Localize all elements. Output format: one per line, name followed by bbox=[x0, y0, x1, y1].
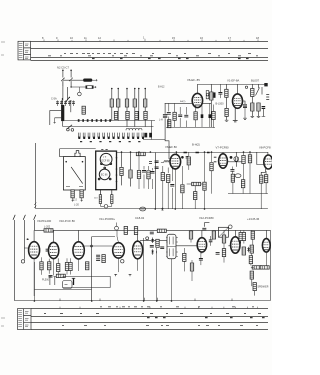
resistor R46 horizontal bbox=[157, 229, 166, 232]
trimmer circle S bbox=[78, 92, 82, 96]
micro labels between line 2 and 3 bbox=[48, 54, 258, 56]
coupling cap between bbox=[46, 249, 48, 251]
plug key on box top bbox=[75, 151, 80, 157]
wire V9 top bbox=[33, 230, 35, 241]
right rail of V11b bbox=[143, 238, 145, 301]
svg-text:8: 8 bbox=[42, 36, 44, 40]
capacitor C8 bbox=[178, 115, 182, 117]
antenna lead 1 bbox=[62, 71, 64, 78]
resistor R13 bbox=[173, 112, 176, 120]
resistor bbox=[249, 256, 252, 264]
capacitor C27 bbox=[216, 253, 220, 255]
wire bbox=[197, 84, 199, 94]
tube V10b bbox=[73, 242, 84, 259]
svg-text:EC 86: EC 86 bbox=[101, 174, 108, 177]
svg-text:11: 11 bbox=[84, 36, 87, 40]
wire top bus left bbox=[60, 148, 96, 150]
svg-text:N2 C5-C7: N2 C5-C7 bbox=[57, 66, 69, 70]
junction bbox=[150, 151, 152, 153]
tube V3b bbox=[98, 167, 111, 180]
svg-text:113: 113 bbox=[94, 198, 98, 200]
resistor R32 bbox=[242, 156, 245, 164]
anode wire right bbox=[202, 102, 212, 104]
wire V10a top bbox=[53, 230, 55, 242]
resistor R51 left of V13 bbox=[222, 235, 225, 243]
ground stub bbox=[243, 118, 247, 119]
top bus bbox=[35, 220, 271, 230]
tube V11a bbox=[113, 243, 125, 258]
legend table top-left bbox=[18, 41, 31, 60]
comb contact row 1 bbox=[64, 120, 155, 122]
wire bbox=[252, 84, 258, 116]
wire top bus right bbox=[117, 152, 268, 154]
coupling wire bbox=[84, 245, 112, 247]
wire bbox=[92, 236, 116, 238]
resistor R58 bbox=[187, 157, 190, 165]
tube V14 PL36 bbox=[262, 239, 270, 252]
capacitor C24 bbox=[160, 247, 164, 249]
circle top right of V11b bbox=[146, 237, 149, 240]
wires lower right bbox=[252, 230, 271, 300]
junction dots on mid bus bbox=[121, 151, 251, 153]
svg-text:V12-PCF80: V12-PCF80 bbox=[199, 216, 214, 220]
wire V8 bottom bbox=[261, 169, 265, 176]
resistor R34 bbox=[231, 174, 234, 182]
fuse oval on bus bbox=[140, 207, 146, 211]
left rail B bbox=[24, 220, 26, 260]
wire bbox=[63, 79, 83, 81]
tuning gang box bbox=[63, 157, 85, 190]
trimmer box bbox=[206, 91, 209, 99]
micro marks below line 3 bbox=[62, 324, 258, 326]
svg-text:10: 10 bbox=[70, 36, 73, 40]
switch arm diagonal bbox=[65, 98, 69, 103]
capacitor C18 bbox=[155, 167, 159, 169]
ticks on line 1 bbox=[60, 307, 258, 309]
tick marks above bottom bus bbox=[60, 298, 232, 301]
jack circle below V11a bbox=[121, 260, 124, 263]
resistor R44 vertical bbox=[124, 226, 127, 234]
dial scale line 1 bbox=[31, 41, 268, 43]
svg-text:V10-P.CF 80: V10-P.CF 80 bbox=[59, 219, 75, 223]
ground bus bbox=[166, 127, 215, 129]
resistor R40 on bus bbox=[44, 229, 53, 232]
grid wire left bbox=[165, 102, 193, 104]
wire bbox=[92, 79, 97, 81]
svg-text:V6-EF 80: V6-EF 80 bbox=[165, 145, 177, 149]
resistor R59 bbox=[189, 231, 192, 239]
resistor R23 on bus bbox=[136, 152, 145, 155]
bottom bus mid row bbox=[36, 208, 268, 210]
wire bbox=[204, 223, 209, 227]
wire bbox=[137, 235, 139, 242]
svg-text:L-H: L-H bbox=[159, 120, 163, 122]
marks above shield box bbox=[101, 149, 108, 151]
tube V1 EF80 bbox=[233, 94, 243, 108]
resistor R49 bbox=[190, 263, 193, 271]
svg-text:L-202: L-202 bbox=[44, 226, 51, 229]
resistor bank R4-R8 bbox=[110, 99, 113, 107]
arrow bbox=[54, 118, 56, 124]
junction dots bottom bus bbox=[34, 300, 173, 302]
dial scale line 4 bbox=[31, 60, 268, 62]
resistor R52 left of V13 bbox=[222, 249, 225, 257]
capacitor C12 (dark) bbox=[213, 92, 215, 97]
resistor bank R9-R12 bbox=[114, 111, 117, 119]
terminal strip bbox=[252, 266, 261, 269]
tube V13 bbox=[231, 237, 240, 253]
diode D3 (dark) bbox=[247, 248, 250, 250]
capacitor C20 bbox=[230, 170, 234, 172]
capacitor C21 double bbox=[96, 255, 100, 257]
tick marks above scale line 1 bbox=[44, 39, 258, 42]
wire V6 bottom bbox=[168, 166, 182, 209]
resistor R43 bbox=[102, 255, 105, 263]
wire V12 top bbox=[201, 230, 203, 237]
left rail 2 bbox=[155, 153, 157, 209]
resistor R50 top bbox=[212, 231, 215, 239]
resistor R26 bbox=[167, 175, 170, 183]
value oval B2 bbox=[235, 174, 241, 178]
circle on top wire bbox=[229, 225, 233, 229]
svg-text:C18-02: C18-02 bbox=[135, 216, 145, 220]
wire bbox=[70, 101, 72, 112]
grid marks left of V7 bbox=[214, 157, 217, 162]
wire stubs with T tops bbox=[49, 277, 57, 286]
jack circle bbox=[104, 205, 108, 209]
trimmer bank wires bbox=[112, 89, 145, 127]
tube V11b bbox=[133, 241, 143, 259]
junction dots on bus bbox=[155, 208, 157, 210]
svg-text:V6-EF- 85: V6-EF- 85 bbox=[187, 78, 200, 82]
capacitor bank C1-C5 bbox=[56, 100, 75, 106]
capacitor C10 (dark) bbox=[201, 114, 204, 118]
coil L2 loops bbox=[126, 128, 142, 130]
asterisk junction bbox=[161, 208, 163, 211]
tube V9 bbox=[29, 242, 40, 259]
resistor R22 bbox=[129, 170, 132, 178]
small component marks on line 4 bbox=[92, 57, 249, 59]
phono box bbox=[219, 227, 229, 237]
T studs bbox=[114, 274, 131, 276]
junction dot bbox=[61, 101, 63, 103]
wire T3 to V12 bbox=[176, 245, 197, 247]
bottom comb wire bbox=[143, 139, 165, 141]
resistor R2 bbox=[86, 86, 93, 89]
dark caps end of comb bbox=[144, 133, 152, 138]
component marks on line 2 bbox=[147, 317, 265, 319]
trimmer T2 bbox=[80, 190, 83, 202]
component under coil bbox=[161, 173, 164, 181]
zipper contact units bbox=[78, 133, 144, 138]
capacitor C7 bbox=[167, 113, 171, 115]
cap pair right of V12 bbox=[209, 240, 213, 242]
dial scale line 3 bbox=[31, 57, 268, 59]
wire comb end bbox=[151, 121, 153, 140]
resistor bbox=[250, 245, 253, 253]
wire V6 top bbox=[175, 152, 177, 154]
wire to tuning box bbox=[60, 149, 64, 157]
resistor R17 bbox=[225, 89, 228, 97]
svg-text:C-2: C-2 bbox=[73, 199, 78, 202]
capacitor C15 bbox=[142, 171, 146, 173]
svg-text:1: 1 bbox=[143, 35, 145, 39]
junction bbox=[70, 86, 71, 87]
resistor R18 bbox=[225, 108, 228, 116]
indicator tube circle bbox=[234, 152, 239, 167]
wire V9 bottom bbox=[33, 259, 35, 297]
resistor R41 horizontal bbox=[56, 274, 65, 277]
mid vertical rail bbox=[91, 237, 93, 301]
switch contact 2 bbox=[69, 78, 72, 87]
wire risers under tube bbox=[169, 103, 210, 127]
capacitor C23 bbox=[150, 232, 154, 234]
wire bbox=[140, 240, 167, 242]
contact marks bbox=[149, 162, 152, 164]
svg-text:V8-PCF8: V8-PCF8 bbox=[259, 145, 271, 149]
svg-text:16: 16 bbox=[200, 36, 203, 40]
wire V13 grid bbox=[228, 245, 230, 247]
resistor R20 bbox=[251, 103, 254, 111]
switch contact 1 bbox=[61, 78, 64, 87]
cap dots on row 1 bbox=[78, 119, 111, 122]
scale line 3 bbox=[31, 322, 268, 324]
input connector slashes bbox=[13, 215, 36, 220]
resistor R25 bbox=[147, 171, 150, 179]
tube V3a bbox=[100, 153, 112, 165]
svg-text:+13-PL36: +13-PL36 bbox=[247, 217, 260, 221]
svg-text:V7-PCF80: V7-PCF80 bbox=[216, 145, 230, 149]
svg-text:17: 17 bbox=[228, 36, 231, 40]
ground bus right bbox=[228, 193, 268, 195]
svg-text:B-H(2): B-H(2) bbox=[192, 142, 200, 146]
IF transformer T3 bbox=[166, 234, 178, 258]
wire V10b top bbox=[78, 230, 80, 241]
tube V12 bbox=[197, 238, 206, 252]
svg-text:V11-PCF80+: V11-PCF80+ bbox=[99, 217, 115, 221]
ferrite coil L1 (solid bar) bbox=[61, 105, 64, 121]
svg-text:15: 15 bbox=[172, 36, 175, 40]
small trimmer circle bbox=[245, 86, 247, 88]
svg-text:ECF 80: ECF 80 bbox=[102, 159, 111, 162]
junction dots bbox=[204, 151, 206, 153]
electrolytic cap (dark T) bbox=[73, 279, 75, 286]
resistor R21 bbox=[120, 167, 123, 175]
legend table bottom-left bbox=[18, 309, 32, 330]
resistor R53 bbox=[239, 233, 242, 241]
svg-text:V1-EF-8A: V1-EF-8A bbox=[227, 79, 239, 83]
svg-text:SPEAKER: SPEAKER bbox=[258, 285, 269, 288]
diode D1 (dark) bbox=[151, 239, 154, 241]
svg-text:PL500: PL500 bbox=[42, 279, 50, 282]
coil winding 1 bbox=[99, 195, 101, 204]
anode wire V7 bbox=[227, 161, 242, 163]
capacitor C9 bbox=[184, 115, 188, 117]
resistor R36 bbox=[260, 175, 263, 183]
wire V7 top bbox=[222, 152, 224, 154]
capacitor C14b (dark) bbox=[262, 107, 266, 109]
bracket wire bbox=[50, 111, 61, 125]
resistor R57 bbox=[253, 283, 256, 291]
resistors under V9/V10 bbox=[40, 262, 43, 270]
svg-text:12: 12 bbox=[98, 36, 101, 40]
resistor R45 bbox=[134, 227, 137, 235]
wire bbox=[61, 98, 63, 105]
resistor R54 bbox=[242, 233, 245, 241]
scale line 4 bbox=[31, 329, 268, 331]
capacitor C20 bbox=[49, 275, 53, 277]
resistor R55 bbox=[168, 120, 171, 128]
micro marks between line 1-2 bbox=[44, 313, 261, 315]
micro marks above line 1 bbox=[100, 306, 254, 308]
capacitor C25 bbox=[199, 259, 203, 261]
resistor R24 bbox=[137, 171, 140, 179]
cathode ground V1 bbox=[233, 108, 238, 122]
grid feed wire bbox=[24, 239, 29, 248]
resistor R3 bbox=[82, 106, 85, 114]
resistor R55 bbox=[242, 247, 245, 255]
resistor R27 bbox=[181, 185, 184, 193]
capacitor C13 bbox=[218, 93, 222, 95]
wire tube V1 top bbox=[236, 84, 238, 94]
resistor R35 bbox=[241, 180, 244, 188]
scan left-edge specks bbox=[1, 42, 5, 326]
switch arm on row 2 bbox=[67, 125, 73, 129]
resistor R16 bbox=[210, 92, 213, 100]
resistor R37 bbox=[264, 175, 267, 183]
wire V8 top bbox=[267, 152, 269, 155]
dial scale line 2 bbox=[31, 48, 268, 50]
left rail A bbox=[14, 220, 16, 296]
IF transformer below box bbox=[99, 190, 113, 207]
wire bbox=[63, 87, 68, 101]
wire tube V1 anode bbox=[242, 101, 245, 104]
wire V14 bottom bbox=[265, 252, 267, 266]
wire V12 bottom bbox=[201, 252, 203, 254]
bottom bus bbox=[15, 296, 271, 301]
tube V10a bbox=[48, 242, 58, 258]
cable loop wire bbox=[63, 276, 111, 287]
svg-text:BL007: BL007 bbox=[251, 79, 260, 83]
heater bus bbox=[35, 289, 92, 291]
small element bbox=[186, 156, 188, 158]
svg-text:L-20: L-20 bbox=[74, 204, 79, 207]
resistor R21b bbox=[257, 103, 260, 111]
top cap circle bbox=[115, 226, 119, 230]
capacitor C26 bbox=[202, 228, 206, 230]
resistor R16b bbox=[212, 112, 215, 120]
connector marks bbox=[266, 95, 269, 100]
tube V6 EF80 bbox=[170, 154, 181, 169]
capacitor C22 bbox=[150, 245, 154, 247]
svg-text:18: 18 bbox=[256, 36, 259, 40]
contact studs row bbox=[80, 141, 140, 143]
connector plug (dark) bbox=[264, 83, 267, 86]
wire risers to bottom bus bbox=[54, 248, 202, 301]
switch circles S1 bbox=[67, 128, 70, 131]
capacitor C6 (dark) bbox=[163, 115, 167, 117]
left column resistor bbox=[251, 231, 254, 239]
resistor R29 bbox=[194, 192, 197, 200]
resistor R33 bbox=[248, 155, 251, 163]
resistor R19 bbox=[251, 89, 254, 97]
coil choke L4 (dark) bbox=[83, 79, 92, 82]
connector mark on left rail bbox=[34, 203, 36, 208]
resistor R48 bbox=[183, 253, 186, 261]
wire right edge bbox=[261, 87, 263, 95]
resistor R42 bbox=[86, 262, 89, 270]
cable loop box bbox=[63, 281, 73, 289]
pins on box right bbox=[116, 157, 118, 182]
capacitor C19 bbox=[170, 185, 174, 187]
scale line 1 bbox=[31, 308, 268, 310]
shield box with dual tube V3 bbox=[96, 151, 117, 190]
scale line 2 bbox=[31, 316, 268, 318]
tube V6a EF85 bbox=[192, 93, 202, 107]
tube V7 PCF80 bbox=[219, 154, 228, 168]
wire bbox=[71, 86, 96, 88]
wire V8 grid bbox=[257, 152, 264, 165]
switch diagonal bbox=[256, 88, 260, 96]
resistor R47 bbox=[156, 239, 159, 247]
wire bbox=[225, 84, 227, 108]
dark bus segments bbox=[184, 152, 210, 154]
wire bbox=[165, 103, 169, 159]
trimmer T1 bbox=[71, 190, 74, 202]
coil L3 loops bbox=[164, 161, 170, 163]
wire V13 top bbox=[234, 230, 236, 237]
tiny scale numerals above line 1 bbox=[42, 35, 259, 40]
tube V8 PCF80 bbox=[264, 155, 273, 169]
wire HT rail bbox=[198, 84, 268, 86]
svg-text:V9-PFL200: V9-PFL200 bbox=[37, 219, 52, 223]
capacitor C16 bbox=[151, 172, 155, 174]
dark blob cap bbox=[181, 156, 184, 159]
ground stubs bbox=[251, 116, 261, 117]
wire V14 top bbox=[265, 230, 267, 238]
comb row 2 wire bbox=[63, 121, 154, 126]
antenna lead 2 bbox=[70, 71, 72, 78]
resistor R30 bbox=[203, 182, 206, 190]
jack circle bbox=[21, 260, 24, 263]
svg-text:B4(2): B4(2) bbox=[180, 101, 186, 103]
svg-text:C-5A: C-5A bbox=[51, 98, 57, 101]
coil winding 2 bbox=[111, 195, 113, 204]
cluster caps/resistors bbox=[139, 152, 153, 189]
svg-text:B H12: B H12 bbox=[158, 87, 165, 89]
wire bbox=[122, 152, 131, 187]
capacitor C11 (dark) bbox=[209, 114, 212, 118]
svg-text:9: 9 bbox=[56, 36, 58, 40]
dark blob bbox=[230, 156, 233, 159]
diode D2 (dark) bbox=[151, 251, 154, 253]
wire bbox=[210, 84, 212, 127]
resistor R14 bbox=[194, 112, 197, 120]
capacitor C17 bbox=[155, 161, 159, 163]
resistor R31 bbox=[210, 163, 213, 171]
zipper blobs bbox=[78, 137, 144, 139]
capacitor C14 bbox=[243, 105, 247, 108]
resistor R56 bbox=[250, 271, 253, 279]
resistor R28 horizontal bbox=[192, 182, 201, 185]
svg-text:B-L500: B-L500 bbox=[216, 103, 225, 106]
left rail wire bbox=[35, 143, 37, 209]
